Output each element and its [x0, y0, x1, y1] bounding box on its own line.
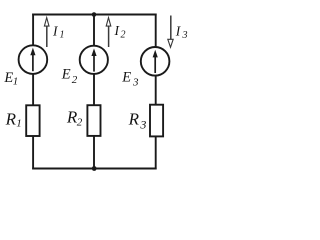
svg-text:3: 3 [182, 30, 188, 41]
label I3 [175, 23, 188, 41]
svg-text:E: E [121, 70, 131, 86]
current arrow I2 [106, 18, 111, 47]
resistor R2 [87, 105, 100, 136]
source E3 [141, 47, 170, 76]
current arrow I3 [168, 16, 173, 48]
wire left branch lower [32, 136, 34, 169]
label E2 [61, 67, 78, 86]
svg-text:2: 2 [77, 116, 83, 128]
resistor R3 [150, 105, 163, 137]
svg-text:3: 3 [139, 118, 146, 132]
wire middle branch lower [93, 136, 95, 169]
node bottom junction [92, 166, 97, 171]
wire right branch lower [155, 136, 157, 169]
svg-text:2: 2 [72, 74, 78, 86]
wire right branch upper [155, 14, 157, 48]
svg-text:1: 1 [16, 117, 22, 129]
label I1 [52, 23, 65, 40]
label R2 [66, 107, 83, 128]
wire right branch middle [155, 76, 157, 105]
svg-text:E: E [61, 67, 71, 83]
svg-text:2: 2 [121, 30, 126, 41]
label I2 [114, 23, 126, 41]
label E3 [121, 70, 139, 89]
node top junction [92, 12, 97, 17]
svg-text:1: 1 [60, 30, 65, 41]
label R3 [128, 110, 147, 132]
wire middle branch middle [93, 74, 95, 105]
svg-text:1: 1 [13, 75, 19, 87]
svg-text:R: R [5, 110, 17, 129]
wire middle branch upper [93, 15, 95, 46]
wire left branch middle [32, 74, 34, 105]
source E1 [19, 45, 48, 74]
wire bottom horizontal bus [32, 168, 156, 170]
wire top horizontal bus [32, 14, 156, 16]
source E2 [80, 46, 108, 74]
label E1 [3, 70, 18, 87]
wire left branch upper [32, 14, 34, 46]
label R1 [5, 110, 22, 130]
resistor R1 [26, 105, 39, 136]
current arrow I1 [44, 18, 49, 47]
svg-text:R: R [128, 110, 140, 129]
svg-text:3: 3 [132, 76, 139, 88]
